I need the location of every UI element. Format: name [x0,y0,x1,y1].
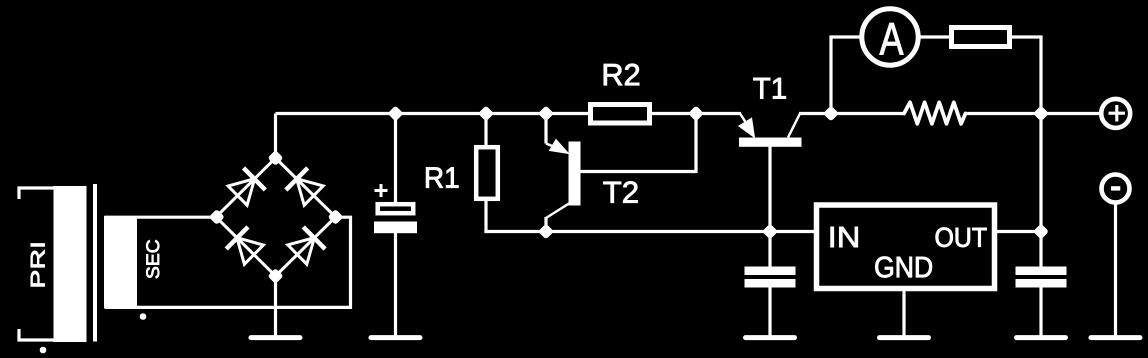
ground minus terminal [1091,335,1140,340]
capacitor C2 plate top [745,267,795,275]
node bridge plus [267,150,283,166]
node rail R1 [478,105,494,121]
terminal minus circle [1102,175,1130,203]
node T2 collector [538,223,554,239]
wire SEC top to bridge AC1 [105,216,217,219]
transistor T2 base bar [569,142,580,205]
label T2 [603,182,637,203]
transformer primary phase dot [40,347,46,353]
ground bridge [251,335,300,340]
label R1 [426,168,458,188]
node rail R2 right [688,105,704,121]
wire node to ammeter up-left [831,37,860,114]
capacitor C3 plate top [1016,267,1066,275]
diode D4 bridge bottom-right [276,217,336,276]
wire positive rail seg1 [276,112,591,115]
label OUT pin [936,228,987,247]
wire rail node down to OUT node [1039,114,1042,268]
label A ammeter [880,23,904,54]
transformer primary bottom lead [19,329,54,340]
wire rail to T2 emitter [544,114,547,144]
label T1 [753,78,785,99]
transformer primary winding PRI [54,187,86,342]
label PRI [31,244,45,287]
wire C3 to ground [1039,286,1042,336]
wire T2 collector down [544,217,547,232]
transformer primary top lead [19,188,54,199]
node rail C1 [387,105,403,121]
diode D2 bridge top-right [276,158,336,217]
wire positive rail seg2 [650,112,741,115]
resistor R4 ammeter series [952,28,1010,47]
wire T2 base to R2 right node [580,114,696,172]
wire node to C2 [768,232,771,269]
wire positive rail seg4 [966,112,1099,115]
transformer secondary winding SEC [105,217,137,308]
label GND pin [875,257,932,278]
resistor R2 [591,105,650,124]
wire R1 to base line [486,199,816,232]
wire SEC bottom to bridge AC2 [105,217,351,307]
node rail T1 collector [823,105,839,121]
capacitor C1 positive plate [378,204,414,213]
wire OUT to node [995,230,1041,233]
label SEC [146,240,159,278]
diode D1 bridge left-top [216,158,276,217]
wire C2 to ground [768,286,771,336]
resistor R3 zigzag [904,102,966,124]
wire rail to C1 [394,114,397,204]
ground C1 [371,335,420,340]
transformer core [93,184,97,342]
transformer secondary phase dot [140,314,146,320]
label R2 [604,64,639,85]
node bridge minus [267,268,283,284]
terminal plus sign [1109,105,1126,122]
node bridge AC1 [209,209,225,225]
ammeter A1 circle [862,9,918,65]
wire U1 GND to ground [902,289,905,336]
node bridge AC2 [327,209,343,225]
ground C3 [1017,335,1066,340]
node OUT [1033,223,1049,239]
transistor T1 emitter diagonal [740,114,750,130]
ground C2 [746,335,795,340]
label IN pin [831,227,858,247]
capacitor C3 plate bottom [1016,280,1066,288]
transistor T2 collector diagonal [546,204,569,219]
wire shunt resistor down-right [1009,37,1041,114]
node rail T2 emitter [538,105,554,121]
transistor T1 base bar [740,138,802,146]
transistor T1 emitter arrow [739,118,755,137]
node rail output [1033,105,1049,121]
diode D3 bridge bottom-left [216,217,276,276]
wire rail to R1 [484,114,487,147]
resistor R1 [476,147,498,199]
ground U1 [880,335,929,340]
terminal minus sign [1111,186,1120,190]
wire C1 to ground [394,233,397,336]
wire positive rail seg3 [799,112,904,115]
wire bridge plus to rail [274,114,277,159]
wire minus terminal to ground [1114,203,1117,336]
transistor T2 emitter arrow [550,140,569,154]
transistor T1 collector diagonal [788,114,800,138]
transistor T2 emitter diagonal [546,144,566,152]
capacitor C2 plate bottom [745,280,795,288]
wire T1 base down [768,146,771,232]
wire bridge minus to ground [274,276,277,336]
terminal plus circle [1101,99,1130,128]
node T1 base / IN [762,223,778,239]
wire ammeter to shunt resistor [921,35,953,38]
voltage regulator U1 box [817,205,995,289]
capacitor C1 polarity plus [375,184,388,197]
capacitor C1 negative plate [375,222,417,233]
